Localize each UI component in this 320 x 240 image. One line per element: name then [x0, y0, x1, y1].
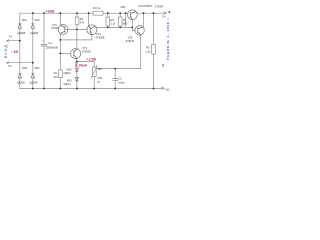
svg-text:Х2: Х2	[8, 64, 12, 68]
svg-text:КТ502Е: КТ502Е	[96, 35, 105, 39]
svg-text:КТ502Е: КТ502Е	[82, 49, 91, 53]
svg-text:КД208: КД208	[17, 31, 25, 35]
svg-text:КД208: КД208	[30, 80, 38, 84]
svg-text:VD4: VD4	[34, 66, 40, 70]
svg-text:КТ502: КТ502	[52, 26, 60, 30]
svg-text:10мА: 10мА	[78, 63, 87, 67]
svg-text:VD6: VD6	[67, 78, 73, 82]
svg-text:R4: R4	[123, 18, 127, 22]
svg-text:VD5: VD5	[67, 67, 73, 71]
svg-text:R2: R2	[80, 17, 84, 21]
svg-text:470: 470	[53, 75, 58, 79]
svg-text:КД208: КД208	[17, 80, 25, 84]
svg-text:R1: R1	[54, 71, 58, 75]
svg-text:КД521: КД521	[64, 83, 72, 86]
svg-text:680: 680	[123, 22, 128, 26]
svg-text:R4 1к: R4 1к	[93, 6, 101, 10]
svg-text:VD1: VD1	[22, 18, 28, 22]
svg-text:~1В: ~1В	[11, 50, 18, 54]
svg-text:КД521: КД521	[64, 72, 72, 75]
svg-text:КТ814Г: КТ814Г	[155, 5, 164, 8]
svg-text:+: +	[42, 38, 44, 42]
svg-text:R5: R5	[146, 45, 150, 49]
svg-text:+2,5В: +2,5В	[87, 58, 97, 62]
svg-text:Х1: Х1	[9, 35, 13, 39]
svg-text:СП3: СП3	[97, 76, 103, 80]
svg-text:С1: С1	[48, 41, 52, 45]
svg-text:2000мк16В: 2000мк16В	[46, 47, 58, 49]
svg-text:0,1мк: 0,1мк	[118, 81, 125, 85]
svg-text:VD2: VD2	[22, 66, 28, 70]
svg-text:VD3: VD3	[34, 18, 40, 22]
svg-text:+30В: +30В	[45, 9, 54, 13]
svg-text:КД208: КД208	[30, 31, 38, 35]
svg-text:11В: 11В	[120, 5, 125, 9]
svg-text:VT5: VT5	[128, 35, 133, 39]
svg-text:1,2к: 1,2к	[111, 22, 117, 26]
svg-text:КТ814Г: КТ814Г	[126, 39, 135, 43]
svg-text:ВХОД: ВХОД	[4, 44, 8, 58]
svg-text:R3: R3	[111, 18, 115, 22]
svg-text:VT4 КТ815Г: VT4 КТ815Г	[138, 4, 153, 8]
svg-text:04: 04	[161, 63, 165, 67]
svg-text:Гр1: Гр1	[166, 89, 170, 92]
svg-text:2,2к: 2,2к	[145, 49, 151, 53]
svg-text:РАДИО № 4, 1998 г.: РАДИО № 4, 1998 г.	[166, 16, 170, 60]
svg-text:С2: С2	[118, 76, 122, 80]
svg-text:R8: R8	[98, 67, 102, 71]
svg-text:VT3: VT3	[82, 46, 87, 50]
